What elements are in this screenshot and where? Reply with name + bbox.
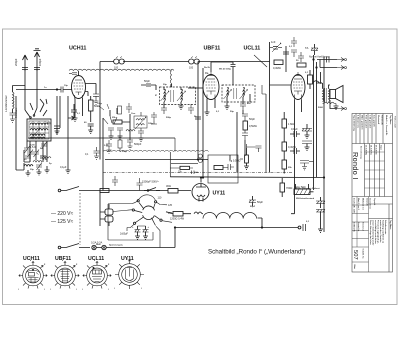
svg-text:Blatt 1 von 1: Blatt 1 von 1 bbox=[357, 198, 360, 211]
wire UCL11 grid bbox=[270, 84, 292, 86]
wire R17 leads bbox=[170, 167, 193, 169]
wire y163 segment bbox=[171, 162, 198, 164]
svg-text:0,1: 0,1 bbox=[306, 221, 310, 223]
svg-text:Spannungsw.: Spannungsw. bbox=[109, 245, 124, 247]
output transformer TR1 primary bbox=[323, 89, 324, 102]
capacitor C24 bbox=[242, 130, 248, 140]
svg-text:100pF: 100pF bbox=[38, 58, 42, 66]
mains switch S2a bbox=[61, 187, 98, 191]
capacitor C45 cathode bypass bbox=[85, 147, 100, 159]
wire IFT1 to UBF11 grid bbox=[188, 87, 203, 89]
svg-text:Ra: Ra bbox=[205, 71, 209, 75]
capacitor C12 above tube bbox=[69, 73, 77, 75]
selector enclosure wire bbox=[108, 204, 153, 240]
svg-text:Osz.: Osz. bbox=[131, 113, 136, 115]
wire bus left drop bbox=[99, 62, 101, 113]
B+ wire y227 bbox=[175, 227, 298, 229]
svg-text:25k: 25k bbox=[288, 167, 292, 169]
svg-text:Rohteil-Nr.: Rohteil-Nr. bbox=[381, 115, 384, 126]
coil L5 bbox=[24, 165, 33, 167]
ground G10 under pot bbox=[244, 166, 249, 169]
svg-text:UCL11: UCL11 bbox=[88, 256, 104, 262]
svg-text:f: f bbox=[141, 288, 142, 290]
IFT2 core lines bbox=[234, 88, 237, 99]
resistor R10 bbox=[280, 178, 292, 197]
coil L10 bbox=[42, 157, 51, 158]
antenna A1 bbox=[14, 55, 28, 96]
resistor R5 top right bbox=[273, 60, 283, 70]
wire plate to IFT1 bbox=[85, 92, 89, 97]
switch S3 on mains line bbox=[144, 188, 160, 191]
svg-text:TA: TA bbox=[305, 46, 309, 50]
svg-text:50p: 50p bbox=[47, 122, 52, 125]
capacitor C31 bbox=[290, 127, 300, 137]
svg-text:100p: 100p bbox=[97, 103, 103, 105]
wire osc rail x68 bbox=[67, 96, 69, 170]
capacitor C44 plate decoupling bbox=[231, 65, 236, 67]
svg-text:3-30: 3-30 bbox=[104, 145, 109, 147]
resistor R15 small bbox=[118, 140, 122, 148]
capacitor C13 right of tube bbox=[93, 94, 99, 104]
svg-text:Ra 2k: Ra 2k bbox=[204, 67, 211, 69]
svg-text:20.3.46 Be: 20.3.46 Be bbox=[375, 145, 378, 156]
svg-text:5000: 5000 bbox=[318, 107, 324, 109]
wire antenna to band switch bbox=[16, 96, 37, 170]
switch contact dots osc bbox=[99, 104, 109, 110]
ground G5 bbox=[73, 118, 78, 121]
svg-text:507: 507 bbox=[352, 250, 358, 260]
wire x237 vertical bbox=[236, 112, 238, 173]
svg-text:1500pF 500V~: 1500pF 500V~ bbox=[142, 180, 160, 184]
shield box tone network bbox=[208, 155, 238, 183]
IFT1 wires bottom bbox=[164, 102, 181, 108]
svg-text:100: 100 bbox=[114, 67, 119, 70]
svg-text:Schaltbild „Rondo I“ („Wunderl: Schaltbild „Rondo I“ („Wunderland“) bbox=[208, 249, 306, 256]
resistor R4 on mains run bbox=[100, 189, 109, 193]
svg-text:0,1: 0,1 bbox=[216, 111, 220, 113]
wire x175 stub bbox=[174, 138, 176, 152]
wire heater rail to choke bbox=[291, 184, 314, 214]
svg-text:Gepr.: Gepr. bbox=[380, 145, 382, 151]
capacitor C9 under tube bbox=[68, 104, 77, 120]
terminal dot grid bbox=[56, 89, 57, 90]
top AVC bus wire bbox=[100, 61, 270, 63]
svg-text:Wdst. geändert: Wdst. geändert bbox=[360, 115, 363, 130]
wire UBF11 plate to IFT2 bbox=[211, 62, 233, 85]
voltage selector disc bbox=[108, 195, 173, 248]
svg-text:Maßstab 1:1: Maßstab 1:1 bbox=[362, 198, 365, 210]
svg-text:L-Entbrummer: L-Entbrummer bbox=[4, 95, 8, 112]
svg-text:f: f bbox=[76, 289, 77, 291]
svg-text:Rondo I: Rondo I bbox=[351, 152, 360, 180]
svg-text:0,1µF: 0,1µF bbox=[60, 166, 67, 169]
capacitor C41 under IFT1 bbox=[188, 104, 194, 114]
resistor R3 vertical bbox=[243, 121, 248, 130]
osc coil box bbox=[134, 116, 147, 128]
top right coupling trimmer C27 bbox=[270, 40, 282, 52]
wire x230 stub bbox=[229, 155, 231, 160]
svg-text:Modell- o. Gesenk-Nr.: Modell- o. Gesenk-Nr. bbox=[385, 115, 387, 136]
resistor R6 beside UCL bbox=[308, 70, 313, 89]
resistor R14 in box bbox=[214, 166, 223, 170]
wire x262 stub bbox=[262, 85, 266, 94]
rails right x314 x316 x320 bbox=[314, 55, 321, 190]
bus wire y177.5 bbox=[170, 176, 324, 179]
AF coupling jack circles bbox=[198, 154, 202, 158]
svg-text:f: f bbox=[50, 289, 51, 291]
svg-text:UBF11: UBF11 bbox=[55, 256, 71, 262]
resistor R12 NTC bbox=[166, 212, 191, 221]
fuse F2 bbox=[91, 241, 175, 250]
svg-text:14.3.46 Ka: 14.3.46 Ka bbox=[370, 145, 373, 156]
wire R15 bbox=[119, 136, 121, 152]
capacitor C25 right of pot bbox=[247, 144, 262, 152]
svg-text:+: + bbox=[132, 226, 134, 229]
osc trimmer arrow bbox=[135, 117, 146, 129]
wire x245 down bbox=[244, 140, 246, 156]
capacitor C49 bbox=[106, 140, 112, 153]
svg-text:30p: 30p bbox=[163, 84, 167, 86]
svg-text:50pF: 50pF bbox=[249, 117, 255, 121]
ground G6b bbox=[139, 138, 144, 141]
detector diode wire to volume bbox=[242, 110, 244, 114]
ground left block G2 bbox=[37, 169, 42, 175]
svg-text:Tag d. Änderung: Tag d. Änderung bbox=[352, 115, 355, 132]
oscillator section lines below tuning bbox=[100, 112, 103, 191]
wire from fuses up bbox=[174, 228, 176, 248]
svg-text:f: f bbox=[108, 289, 109, 291]
caps right column C34 bbox=[302, 141, 312, 150]
svg-text:IF: IF bbox=[155, 95, 158, 97]
svg-text:Ersatz für: Ersatz für bbox=[357, 222, 360, 231]
svg-text:UBF11: UBF11 bbox=[204, 46, 221, 52]
coil L6 osc bbox=[126, 130, 135, 132]
grid cap G stub bbox=[86, 84, 97, 95]
capacitor C15 on bus bbox=[189, 57, 200, 70]
capacitor C14 on bus bbox=[114, 57, 125, 70]
wire UCL11 heater down bbox=[295, 100, 302, 198]
fuse F1 bbox=[92, 245, 96, 249]
resistor R11 on y190 bbox=[166, 184, 178, 193]
ground left block G3 bbox=[45, 166, 50, 173]
antenna coupling coil L9 bbox=[10, 86, 26, 123]
resistor chain x245 capacitor C23 bbox=[242, 114, 248, 121]
svg-text:+: + bbox=[148, 226, 150, 229]
antenna A2 bbox=[34, 49, 43, 96]
capacitor C48 bbox=[25, 156, 31, 158]
TR1 core bbox=[325, 88, 327, 102]
ground G9 under IFT2 bbox=[225, 106, 230, 109]
wire electrolytic taps bbox=[127, 226, 146, 231]
svg-text:NS-Heizwiderstand: NS-Heizwiderstand bbox=[296, 197, 315, 200]
resistor R1 vertical bbox=[89, 96, 101, 122]
svg-text:Geprüft: Geprüft bbox=[373, 198, 376, 206]
output terminal T3 bbox=[298, 226, 301, 229]
svg-text:30Ω: 30Ω bbox=[166, 184, 171, 188]
capacitor C26 with label bbox=[112, 176, 160, 186]
svg-text:25k: 25k bbox=[112, 117, 116, 119]
plug block connector X1 bbox=[100, 191, 113, 227]
coil L4b bbox=[30, 137, 45, 139]
osc coil windings bbox=[136, 119, 144, 125]
svg-text:10p: 10p bbox=[64, 85, 68, 87]
mains switch S2b bbox=[61, 244, 90, 248]
svg-text:Rg 0,5MΩ: Rg 0,5MΩ bbox=[229, 160, 240, 163]
micro labels osc bbox=[104, 113, 154, 153]
svg-text:1200Ω 0,4W: 1200Ω 0,4W bbox=[170, 218, 185, 221]
IFT2 primary coil bbox=[227, 88, 229, 97]
ground left block G1 bbox=[26, 170, 31, 176]
svg-text:0,5MΩ: 0,5MΩ bbox=[249, 124, 257, 128]
junction dots mid bbox=[197, 159, 198, 160]
title block bottom-left rows bbox=[352, 197, 369, 273]
coil block inner box bbox=[29, 121, 49, 139]
wire x286 bbox=[285, 46, 287, 72]
svg-text:f: f bbox=[114, 288, 115, 290]
wire block verticals bbox=[30, 141, 47, 162]
TR1 top wires bbox=[323, 83, 331, 89]
volume potentiometer P1 bbox=[229, 148, 248, 166]
wire top right rail x269 bbox=[269, 42, 271, 173]
svg-text:g: g bbox=[108, 264, 110, 266]
svg-text:UCL11: UCL11 bbox=[244, 46, 261, 52]
coil L2 bbox=[30, 123, 48, 125]
svg-text:125: 125 bbox=[168, 204, 173, 207]
svg-text:UCH11: UCH11 bbox=[69, 46, 86, 52]
svg-text:g: g bbox=[44, 264, 46, 266]
svg-text:5p: 5p bbox=[49, 163, 52, 165]
tube UCH11 envelope bbox=[72, 76, 86, 99]
resistor R2 horizontal bbox=[113, 120, 122, 124]
socket diagram UCH11 bbox=[18, 260, 47, 291]
svg-text:1nF: 1nF bbox=[271, 40, 276, 44]
socket diagram UBF11 bbox=[50, 260, 79, 291]
capacitor C42 in box bbox=[223, 164, 234, 170]
IFT1 wires top bbox=[164, 84, 181, 90]
phono terminal arrows TA bbox=[337, 58, 347, 111]
speaker field coil bbox=[323, 102, 337, 106]
AVC dash-dot line y172.5 bbox=[103, 172, 292, 174]
wire osc top bbox=[141, 112, 157, 124]
svg-text:2x50µF: 2x50µF bbox=[120, 233, 129, 236]
wire grid top left bbox=[16, 89, 61, 91]
svg-text:50: 50 bbox=[24, 159, 27, 161]
svg-text:700Ω: 700Ω bbox=[286, 186, 292, 190]
svg-text:0,1µF: 0,1µF bbox=[291, 127, 298, 131]
capacitor C51 bbox=[192, 171, 199, 175]
wire x170 drop bbox=[169, 152, 171, 177]
svg-text:— 125 V≈: — 125 V≈ bbox=[51, 219, 73, 225]
trimmer arrow T1 bbox=[31, 128, 40, 139]
IFT1 core lines bbox=[171, 90, 174, 102]
svg-text:50µF: 50µF bbox=[250, 206, 256, 208]
svg-text:Zus. geprüft: Zus. geprüft bbox=[372, 115, 375, 127]
trimmer capacitor C5 bbox=[33, 150, 39, 161]
IFT2 tuning arrows bbox=[224, 90, 248, 100]
wire mid rail x57 bbox=[57, 96, 60, 135]
svg-text:Werkstoff: Werkstoff bbox=[377, 115, 380, 125]
capacitor C28 bbox=[283, 52, 289, 54]
svg-text:4. Absatz neu: 4. Absatz neu bbox=[356, 115, 359, 129]
heater ground under UBF11 bbox=[205, 99, 216, 115]
svg-text:465: 465 bbox=[247, 102, 251, 105]
coil L3 bbox=[30, 129, 48, 131]
capacitor C19 before IFT1 bbox=[141, 79, 156, 90]
title block outer bbox=[352, 114, 393, 273]
junction dots power bbox=[174, 227, 175, 228]
capacitor C35 on line bbox=[303, 224, 306, 231]
ground G6 bbox=[109, 136, 114, 139]
capacitor C50 osc top bbox=[126, 103, 132, 113]
wire UY11 anode top bbox=[200, 177, 202, 180]
capacitor C21 at rail bbox=[195, 117, 201, 119]
electrolytic C29 hatched bbox=[311, 44, 318, 55]
svg-text:0,1: 0,1 bbox=[77, 113, 81, 115]
electrolytic C39 hatched bbox=[316, 197, 325, 208]
capacitor C18 padder bbox=[127, 140, 133, 149]
tube UCH11 electrodes bbox=[74, 80, 84, 99]
capacitor C46 right column row3 bbox=[300, 161, 314, 170]
svg-text:Gezeichnet: Gezeichnet bbox=[369, 198, 372, 209]
micro value labels left block bbox=[24, 145, 52, 172]
svg-text:50µF: 50µF bbox=[257, 200, 263, 204]
electrolytic C37 bbox=[132, 226, 141, 239]
svg-text:500pF: 500pF bbox=[134, 142, 142, 146]
capacitor C43 bbox=[137, 178, 143, 191]
trimmer capacitor C7b bbox=[24, 146, 30, 154]
svg-text:f: f bbox=[44, 289, 45, 291]
ground G8 under IFT1 bbox=[179, 106, 184, 109]
svg-text:50: 50 bbox=[296, 60, 299, 62]
svg-text:1,5-9: 1,5-9 bbox=[30, 146, 36, 149]
micro text heater resistor bbox=[296, 187, 320, 200]
svg-text:Tag Name: Tag Name bbox=[389, 115, 391, 125]
cluster caps near UCL grid bbox=[291, 37, 306, 67]
wire bottom of block bbox=[16, 141, 30, 170]
svg-text:60: 60 bbox=[84, 122, 87, 124]
UCL11 label leader line bbox=[254, 55, 267, 67]
svg-text:0,1: 0,1 bbox=[305, 72, 309, 74]
ground G7 bbox=[118, 136, 123, 139]
electrolytic C36 bbox=[249, 196, 263, 206]
electrolytic C38 bbox=[120, 226, 150, 239]
padder capacitor C6 bbox=[40, 150, 46, 162]
mains terminal T1 bbox=[58, 189, 61, 192]
resistor R9 bbox=[282, 160, 287, 174]
svg-text:Wk 20 100p: Wk 20 100p bbox=[219, 69, 232, 71]
capacitor C22 under IFT2 bbox=[240, 104, 246, 110]
wire y190 mains run bbox=[98, 190, 191, 192]
filter choke L8 scalloped bbox=[203, 213, 257, 219]
svg-text:R 12 geändert: R 12 geändert bbox=[364, 115, 367, 129]
capacitor C8 bbox=[47, 122, 60, 134]
coupling hook to transformer bbox=[313, 81, 322, 84]
electrolytic C40 hatched bbox=[316, 210, 325, 230]
tube UCL11 electrodes bbox=[293, 72, 303, 100]
svg-text:Ferritant.: Ferritant. bbox=[14, 107, 18, 118]
capacitor C11 on grid wire bbox=[61, 87, 72, 93]
ground G4 bbox=[66, 170, 71, 173]
wire to gang capacitor bbox=[110, 108, 117, 116]
capacitor C10 bbox=[88, 124, 94, 133]
svg-text:Tag Name: Tag Name bbox=[389, 220, 391, 230]
wire after choke bbox=[258, 218, 263, 228]
svg-text:Blatt: Blatt bbox=[353, 265, 356, 270]
svg-text:C 24 geändert: C 24 geändert bbox=[368, 115, 371, 129]
output transformer TR1 secondary bbox=[329, 89, 330, 102]
resistor R8 bbox=[282, 142, 296, 160]
switch linkage dashed bbox=[79, 193, 81, 245]
svg-text:1 MΩ: 1 MΩ bbox=[288, 122, 294, 126]
coil L4 bbox=[30, 134, 45, 136]
svg-text:g: g bbox=[76, 264, 78, 266]
title block right column rows bbox=[369, 204, 393, 272]
caps right column C33 bbox=[302, 124, 312, 138]
IFT1 secondary coil bbox=[181, 90, 183, 102]
svg-text:f: f bbox=[18, 289, 19, 291]
svg-text:0,3MΩ: 0,3MΩ bbox=[273, 66, 281, 70]
svg-text:— 220 V≈: — 220 V≈ bbox=[51, 211, 73, 217]
IF transformer IFT2 shield box bbox=[222, 85, 255, 102]
band switch S1 fan contacts bbox=[25, 99, 47, 118]
svg-text:Personen zugänglich ge-: Personen zugänglich ge- bbox=[377, 220, 379, 244]
IFT2 bottom wires bbox=[227, 94, 250, 106]
capacitor C17 bbox=[117, 128, 123, 136]
tube UCL11 envelope bbox=[291, 75, 305, 100]
svg-text:110: 110 bbox=[158, 197, 162, 200]
capacitor C16 bbox=[108, 128, 114, 136]
wavy shield drop to IFT1 bbox=[170, 71, 171, 88]
heater choke L7 bbox=[194, 212, 203, 214]
svg-text:1n: 1n bbox=[44, 87, 47, 89]
IFT1 primary coil bbox=[164, 90, 166, 102]
coil block L1 outer box bbox=[27, 119, 51, 141]
capacitor C20 under IFT1 bbox=[161, 108, 167, 114]
svg-text:500p: 500p bbox=[166, 117, 172, 119]
socket diagram UCL11 bbox=[82, 260, 111, 291]
ground G12 bbox=[318, 229, 323, 232]
svg-text:50p: 50p bbox=[230, 111, 234, 113]
rectifier tube UY11 circle bbox=[192, 178, 209, 202]
resistor column R7 bbox=[282, 112, 294, 142]
osc switch contacts bbox=[103, 116, 117, 124]
tube UBF11 electrodes bbox=[206, 72, 217, 99]
micro value labels scatter bbox=[44, 46, 324, 247]
svg-text:Zeichn.-Nr. 1107: Zeichn.-Nr. 1107 bbox=[353, 198, 355, 214]
svg-text:50pF: 50pF bbox=[144, 79, 150, 83]
svg-text:0,3MΩ: 0,3MΩ bbox=[288, 145, 296, 149]
title block revision strip bbox=[352, 114, 393, 144]
svg-text:Ersetzt d.: Ersetzt d. bbox=[362, 222, 365, 231]
svg-text:Zellfilm Nr.: Zellfilm Nr. bbox=[353, 222, 355, 233]
mains terminal T2 bbox=[58, 246, 61, 249]
AVC bus wire y159.5 bbox=[105, 159, 208, 161]
wire x266 AF line bbox=[265, 94, 267, 173]
tube UCH11 anode wire up bbox=[78, 71, 80, 76]
IF transformer IFT1 shield box bbox=[160, 87, 196, 105]
svg-text:Schadenersatz.: Schadenersatz. bbox=[384, 220, 387, 235]
svg-text:100: 100 bbox=[189, 67, 194, 70]
heater dropping resistor R13 hatched bbox=[294, 186, 311, 195]
speaker LS1 bbox=[330, 86, 343, 103]
IFT1 tuning arrows bbox=[161, 91, 186, 101]
svg-text:UY11: UY11 bbox=[213, 191, 226, 197]
resistor R17 bbox=[180, 166, 190, 169]
svg-text:0,1: 0,1 bbox=[289, 46, 293, 48]
svg-text:200pF: 200pF bbox=[14, 58, 18, 66]
tube UBF11 envelope bbox=[203, 75, 219, 100]
svg-text:Schaltb. Nr.: Schaltb. Nr. bbox=[362, 249, 365, 260]
